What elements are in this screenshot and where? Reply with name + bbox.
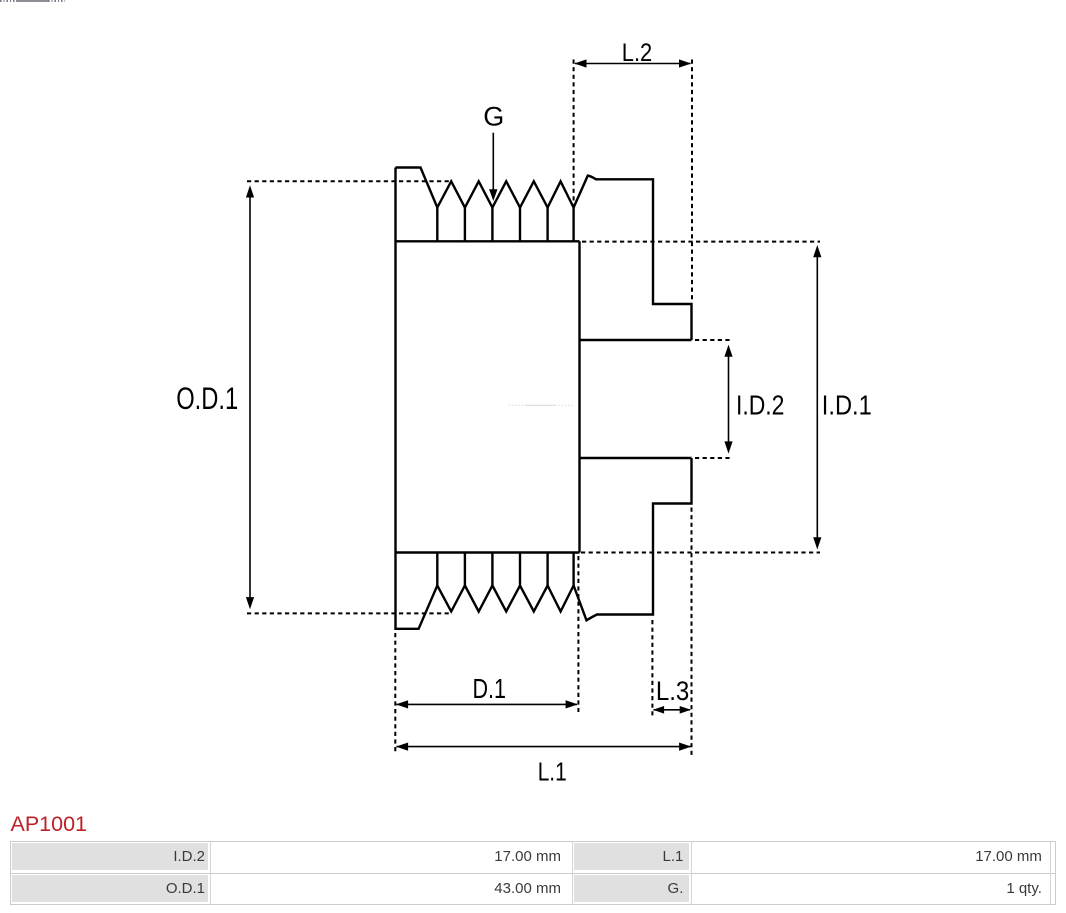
pulley outer profile upper (flange, ribs, nose) [396,168,692,341]
O.D.1 top extension [247,180,451,182]
svg-text:L.2: L.2 [622,39,653,67]
part number AP1001 [11,812,88,837]
svg-text:G: G [483,102,504,132]
bore top line I.D.2 [579,339,692,341]
spec table [10,841,1056,905]
cropped watermark strip top-left [0,0,16,2]
L.3 left extension [651,620,653,718]
D.1 right extension [577,556,579,712]
svg-text:I.D.1: I.D.1 [822,389,872,420]
dashed extension lines [247,60,820,757]
I.D.1 top extension [582,241,820,243]
dimension D.1 line [397,703,578,705]
L.3 / L.1 right extension [691,508,693,757]
dimension L.2 line [575,63,691,65]
dimension L.1 line [397,746,691,748]
body top line [396,240,580,242]
svg-text:L.3: L.3 [656,676,690,706]
table texts row2 [60,880,205,897]
dimension L.3 line [654,709,691,711]
L.2 left extension [573,60,575,210]
D.1 / L.1 left extension [394,633,396,753]
body bottom line [396,551,580,553]
dimension I.D.1 line [816,256,818,539]
O.D.1 bottom extension [247,612,451,614]
gray label cells [12,843,209,871]
rib groove stubs bottom [437,553,573,586]
I.D.1 bottom extension [581,552,820,554]
body right face [578,241,580,552]
cell borders verticals [210,842,211,904]
pulley outer profile lower (mirrored) [396,168,692,629]
row divider [10,873,1056,874]
leader arrow G [492,133,494,190]
svg-text:L.1: L.1 [538,757,567,787]
svg-text:D.1: D.1 [472,673,506,704]
I.D.2 top extension [695,339,731,341]
dimension O.D.1 line [249,196,251,598]
dimension I.D.2 line [728,355,730,444]
table texts row1 [60,848,205,865]
svg-text:I.D.2: I.D.2 [736,389,785,420]
faint watermark strip drawing centre [509,404,575,406]
bore bottom line I.D.2 [579,457,692,459]
I.D.2 bottom extension [695,457,731,459]
svg-text:O.D.1: O.D.1 [176,380,238,416]
rib groove stubs top [437,208,573,242]
L.2 right extension [691,60,693,303]
